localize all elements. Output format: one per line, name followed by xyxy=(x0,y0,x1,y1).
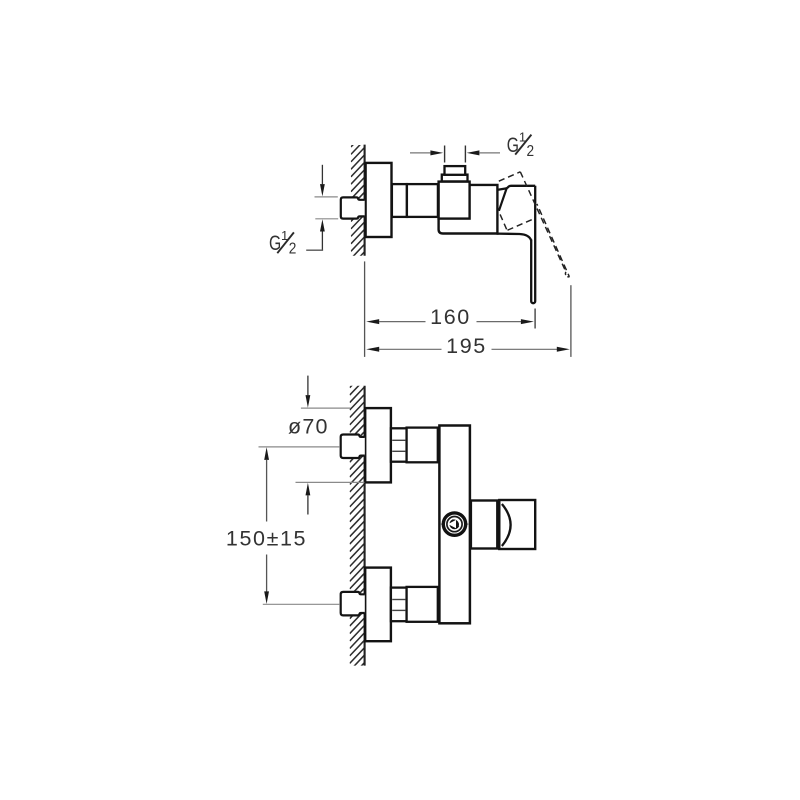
wall flange (side view) xyxy=(366,163,392,237)
dimension 150pm15 bottom extension line xyxy=(263,603,340,605)
cartridge housing block (side view) xyxy=(439,182,470,219)
lower G1/2 port with tongue (front view) xyxy=(341,592,365,616)
top G1/2 tick right xyxy=(464,146,466,163)
G1/2 inlet port with tongue through wall (side view) xyxy=(341,197,365,218)
left G1/2 down arrow xyxy=(321,165,323,185)
wall surface line (front view) xyxy=(364,386,366,666)
upper neck large (front view) xyxy=(407,428,438,463)
lower wall flange (front view) xyxy=(365,568,391,642)
svg-text:ø70: ø70 xyxy=(288,415,329,439)
dashed rotated knob bottom edge xyxy=(508,218,536,230)
upper G1/2 port with tongue (front view) xyxy=(341,435,365,459)
lever handle bar solid (side view) xyxy=(531,186,535,303)
top outlet collar (side view) xyxy=(442,175,468,182)
wall hatch (side view) xyxy=(351,133,365,274)
svg-text:2: 2 xyxy=(289,241,297,258)
dia70 lower extension line (crosses wall) xyxy=(296,481,365,483)
left extension line below wall (side view) xyxy=(364,261,366,357)
svg-text:G: G xyxy=(507,134,519,157)
neck large section (side view) xyxy=(407,184,438,217)
knob facet line (side view) xyxy=(499,188,507,210)
mixer body slab (front view) xyxy=(439,426,470,624)
dashed rotated knob lower-left edge xyxy=(500,214,507,229)
svg-text:195: 195 xyxy=(446,334,487,358)
top G1/2 tick left xyxy=(444,146,446,163)
svg-text:2: 2 xyxy=(527,143,535,160)
dimension 160 line with arrows xyxy=(366,319,379,324)
dashed lever lower line xyxy=(537,204,570,277)
left G1/2 extension line lower xyxy=(315,218,338,220)
left G1/2 extension line upper xyxy=(315,196,338,198)
dashed lever upper line xyxy=(520,172,566,272)
lever knob end-on (front view) xyxy=(499,500,535,549)
upper wall flange (front view) xyxy=(365,408,391,482)
dia70 up arrow xyxy=(306,483,311,496)
dimension 150pm15 top extension line xyxy=(259,446,340,448)
wall surface line (side view) xyxy=(364,145,366,256)
lower neck large (front view) xyxy=(407,587,438,622)
cartridge collar (front view) xyxy=(471,501,497,549)
dia70 down arrow xyxy=(307,376,309,396)
lower neck small with thread lines (front view) xyxy=(391,588,407,622)
knurled screw outer ring (front view) xyxy=(443,513,465,535)
top G1/2 dimension line left segment with arrow xyxy=(410,152,430,154)
right extension line (handle tip, side view) xyxy=(570,285,572,357)
dia70 upper extension line xyxy=(301,407,351,409)
svg-text:150±15: 150±15 xyxy=(226,527,307,551)
svg-text:160: 160 xyxy=(430,305,471,329)
tick below lever tip (160 boundary) xyxy=(534,309,536,329)
neck small section (side view) xyxy=(392,184,407,217)
wall hatch (front view) xyxy=(350,372,365,686)
screw centerline ticks (front view) xyxy=(440,523,443,525)
left G1/2 up arrow with leader xyxy=(320,219,325,231)
upper neck small with thread lines (front view) xyxy=(391,428,407,461)
dimension 150pm15 vertical line with arrows xyxy=(264,447,269,460)
screw slot disc xyxy=(449,519,459,529)
mixer body (side view) xyxy=(439,185,498,234)
lever knob head top edge (side view) xyxy=(497,186,535,190)
top G1/2 dimension line right segment with arrow xyxy=(480,152,500,154)
left G1/2 label xyxy=(269,228,296,258)
dashed lever end cap xyxy=(565,272,569,277)
body bottom edge extension under knob into lever (side view) xyxy=(497,234,532,241)
screw inner ring xyxy=(447,517,462,532)
dimension 195 line with arrows xyxy=(366,347,379,352)
top G1/2 label xyxy=(507,129,534,160)
lever blade arc (front view) xyxy=(502,504,511,546)
dashed rotated knob upper-left edge xyxy=(499,172,521,181)
top G1/2 outlet stub (side view) xyxy=(445,166,466,175)
